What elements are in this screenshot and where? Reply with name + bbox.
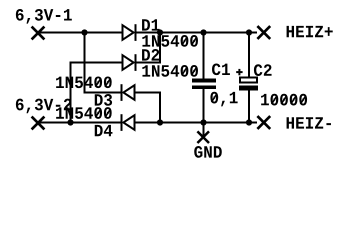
net label 6,3V-1 — [16, 9, 72, 24]
label D2 — [142, 49, 159, 61]
wire GND stub — [203, 123, 205, 138]
net label GND — [194, 146, 222, 158]
junction node row1/D2 cathode — [157, 29, 163, 35]
wire vertB + row3 left (AC1 to D3 cathode) — [85, 33, 122, 93]
junction node row4/C2 — [246, 119, 252, 125]
wire row4 left (6,3V-2 to D4 cathode) — [39, 122, 122, 124]
junction node row4/vertC — [157, 119, 163, 125]
junction node row1/C2 — [246, 29, 252, 35]
wire row1 right (D1 cathode to HEIZ+) — [136, 32, 258, 34]
net label 6,3V-2 — [16, 99, 72, 114]
wire C1 top lead — [203, 33, 205, 80]
junction node row4/C1/GND — [200, 119, 206, 125]
value 1N5400 of D3 — [56, 76, 112, 88]
wire row1 left (6,3V-1 to D1 anode) — [39, 32, 123, 34]
value 1N5400 of D1 — [142, 35, 198, 47]
wire row3 right + vertC down (D3 anode to - rail) — [135, 93, 161, 123]
capacitor C2 plates — [239, 78, 258, 91]
wire C2 top lead — [248, 33, 250, 78]
label D4 — [95, 125, 113, 136]
net label HEIZ- — [287, 117, 331, 128]
capacitor C1 plates — [192, 79, 216, 90]
terminal pin 6,3V-2 — [32, 117, 45, 130]
terminal pin HEIZ- — [257, 116, 270, 129]
terminal pin 6,3V-1 — [32, 27, 45, 40]
label D3 — [95, 94, 112, 106]
label D1 — [142, 19, 159, 30]
wire row2 right + vertC up (D2 cathode to + rail) — [136, 33, 161, 63]
wire C1 bottom lead — [203, 89, 205, 123]
value 1N5400 of D2 — [142, 65, 198, 77]
wire row4 right (D4 anode to HEIZ-) — [135, 122, 258, 124]
wire row2 left + vertA (AC2 feed to D2 anode) — [71, 63, 124, 123]
label C2 — [254, 64, 272, 76]
diode D1 — [123, 24, 136, 41]
value 10000 of C2 — [261, 94, 307, 106]
wire C2 bottom lead — [248, 90, 250, 123]
junction node row1/vertB — [81, 29, 87, 35]
label C1 — [212, 63, 230, 75]
junction node row1/C1 — [200, 29, 206, 35]
capacitor C2 polarity plus — [236, 69, 242, 75]
diode D4 — [122, 114, 135, 131]
value 0,1 of C1 — [210, 92, 237, 107]
value 1N5400 of D4 — [56, 107, 112, 119]
net label HEIZ+ — [287, 26, 333, 37]
terminal pin HEIZ+ — [257, 26, 270, 39]
diode D2 — [123, 54, 136, 71]
diode D3 — [122, 84, 135, 101]
junction node row4/vertA — [67, 119, 73, 125]
ground terminal pin GND — [197, 131, 209, 143]
